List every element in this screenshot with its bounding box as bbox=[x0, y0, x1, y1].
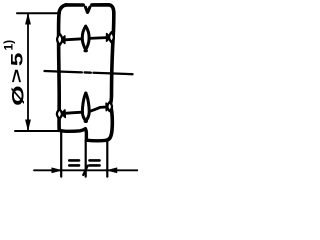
edge lens 1 right bbox=[109, 32, 114, 42]
centerline dash-dot bbox=[45, 71, 82, 72]
extension line top bbox=[17, 12, 60, 14]
equality symbol right bbox=[90, 159, 100, 162]
dimension arrow down bbox=[26, 120, 31, 130]
svg-text:Ø: Ø bbox=[8, 85, 27, 105]
edge lens 1 right crow's foot bbox=[107, 34, 111, 42]
dimension line vertical bbox=[27, 14, 29, 130]
bottom dimension line bbox=[34, 169, 138, 171]
weld nugget lens 2 (center) bbox=[82, 93, 86, 121]
part outline right edge bbox=[106, 13, 114, 140]
bottom contour left conductor bbox=[59, 129, 85, 132]
part outline left edge bbox=[59, 5, 67, 130]
bottom dimension arrow right-pointing bbox=[52, 168, 62, 173]
extension line C bbox=[106, 141, 108, 177]
part outline top edge right lobe bbox=[92, 5, 114, 13]
edge lens 2 left crow's foot bbox=[61, 110, 65, 118]
svg-text:1): 1) bbox=[1, 40, 15, 51]
edge lens 1 left crow's foot bbox=[61, 36, 65, 44]
split notch V bbox=[86, 7, 90, 13]
weld seam 1 left segment bbox=[65, 39, 82, 40]
bottom dimension arrow left-pointing bbox=[107, 168, 117, 173]
svg-text:>: > bbox=[8, 69, 26, 83]
extension line A bbox=[60, 132, 62, 177]
weld nugget lens 1 (center) bbox=[82, 26, 86, 51]
bottom contour step bbox=[84, 129, 88, 140]
edge lens 2 right crow's foot bbox=[106, 103, 110, 110]
extension line B bbox=[85, 141, 87, 177]
bottom contour right conductor bbox=[86, 138, 106, 142]
weld seam 1 right segment bbox=[89, 36, 106, 40]
oblique tick bbox=[83, 166, 88, 175]
edge lens 1 left bbox=[57, 34, 62, 45]
svg-text:5: 5 bbox=[8, 52, 26, 66]
edge lens 2 left bbox=[57, 109, 62, 119]
part outline top edge left lobe bbox=[66, 3, 84, 7]
weld seam 2 left segment bbox=[65, 112, 83, 113]
dimension arrow up bbox=[26, 14, 31, 24]
extension line bottom-left bbox=[15, 130, 60, 132]
weld seam 2 right segment bbox=[90, 107, 106, 111]
edge lens 2 right bbox=[107, 102, 112, 111]
equality symbol left bbox=[69, 159, 79, 162]
